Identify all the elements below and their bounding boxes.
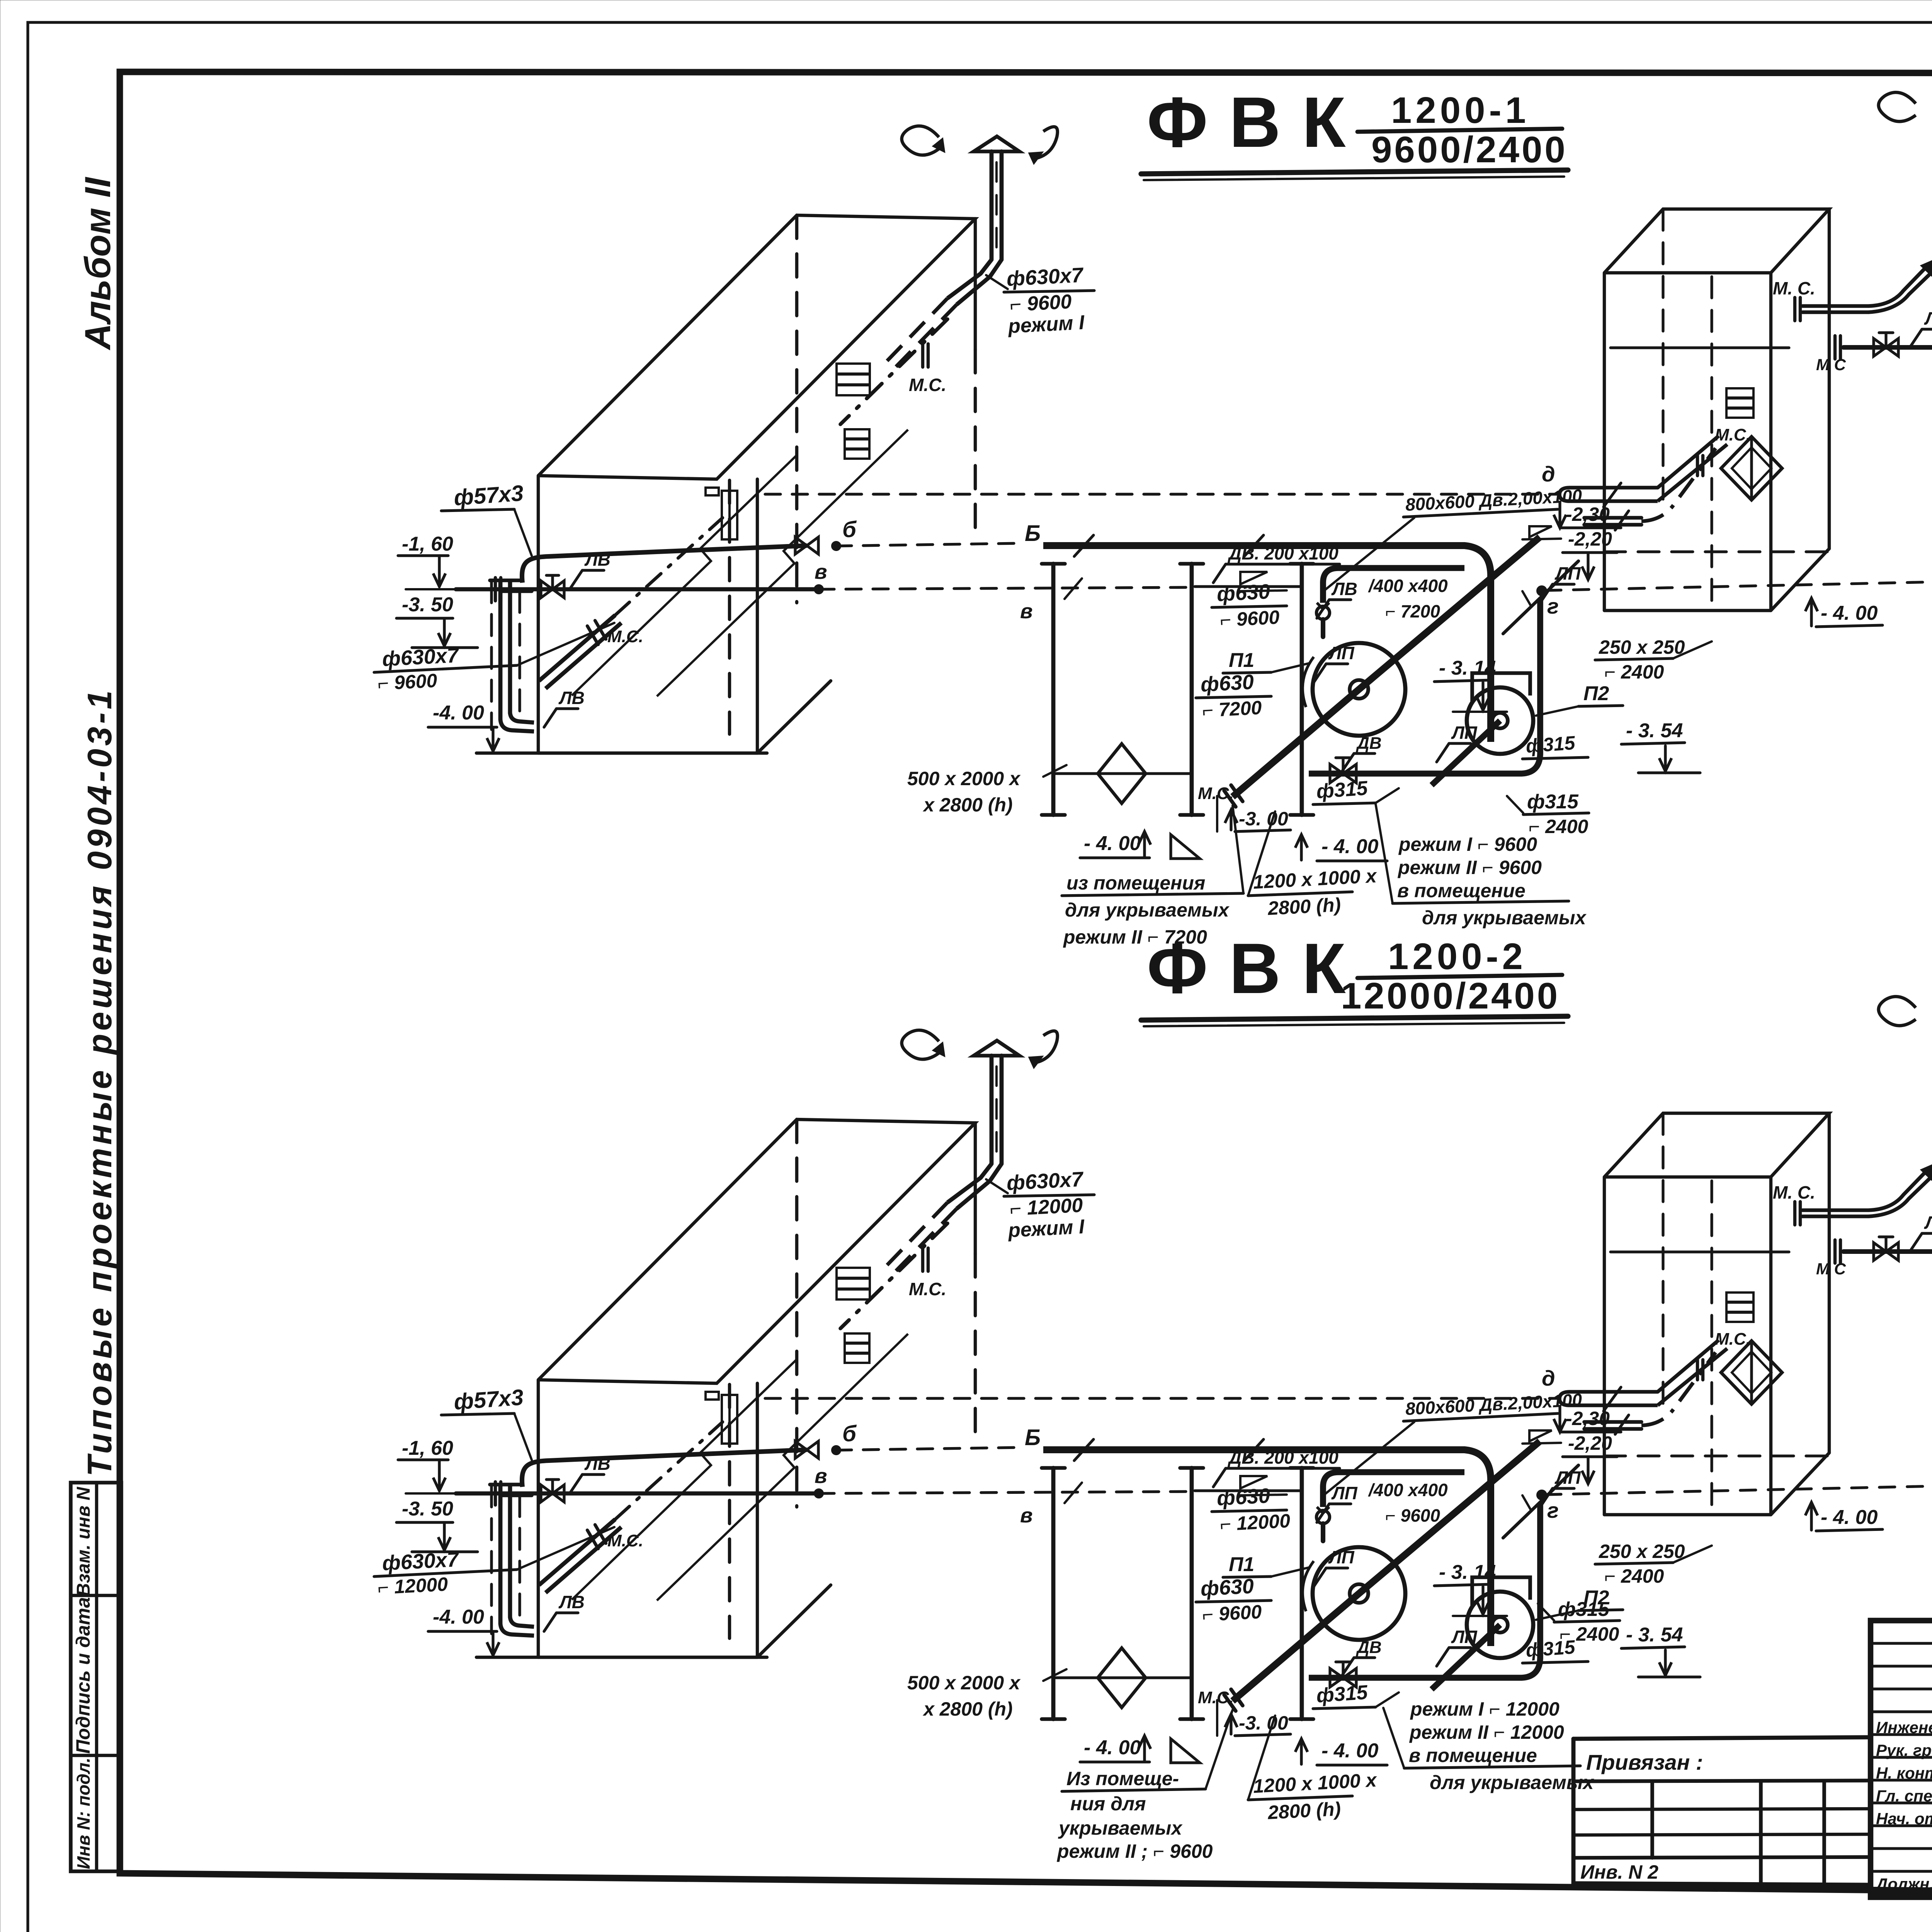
svg-text:режим I: режим I — [1007, 1216, 1086, 1242]
svg-text:ф57х3: ф57х3 — [453, 1385, 524, 1415]
label f315 valve (bottom) — [1313, 1681, 1399, 1709]
svg-text:- 3. 14: - 3. 14 — [1439, 1561, 1496, 1583]
label P2 (top) — [1536, 682, 1623, 716]
svg-text:ЛП: ЛП — [1451, 1627, 1478, 1647]
svg-text:М С: М С — [1816, 1260, 1846, 1278]
svg-text:⌐ 2400: ⌐ 2400 — [1560, 1623, 1619, 1645]
level -1.60 (bottom) — [398, 1437, 458, 1493]
ground line (top) — [476, 752, 767, 755]
svg-text:в: в — [815, 560, 827, 583]
fan P1 (bottom) — [1198, 1441, 1540, 1711]
svg-text:ф315: ф315 — [1527, 791, 1579, 813]
valve f315 (top) — [1330, 758, 1356, 783]
pipe b section line (bottom) — [522, 1421, 1041, 1487]
svg-text:М.С.: М.С. — [607, 1531, 643, 1550]
vent stack rezhim II (top) — [1879, 92, 1932, 266]
label f630 7200 (bottom) — [1196, 1575, 1271, 1626]
svg-text:250 х 250: 250 х 250 — [1599, 636, 1685, 658]
label f630x7 stack (bottom) — [1004, 1168, 1094, 1242]
level -4.00 mid-left (bottom) — [1080, 1736, 1200, 1763]
svg-text:х 2800 (h): х 2800 (h) — [922, 1698, 1013, 1720]
svg-text:-1, 60: -1, 60 — [402, 1437, 453, 1459]
left sidebar table — [71, 1483, 121, 1871]
left riser f630 (bottom) — [490, 1422, 723, 1636]
pipe f315 2400 main (bottom) — [1816, 1237, 1932, 1278]
svg-text:для укрываемых: для укрываемых — [1430, 1772, 1595, 1793]
svg-text:в: в — [1020, 600, 1033, 623]
text iz pomescheniya (bottom) — [1056, 1710, 1233, 1862]
svg-text:ЛВ: ЛВ — [1924, 308, 1932, 328]
svg-text:М.С.: М.С. — [1198, 1688, 1234, 1707]
label f315 valve (top) — [1313, 777, 1399, 804]
label 500x2000 (top) — [907, 765, 1066, 816]
fan P2 (top) — [1432, 673, 1533, 785]
svg-text:Инв. N 2: Инв. N 2 — [1580, 1861, 1658, 1883]
svg-text:Б: Б — [1025, 521, 1041, 546]
flag LV mid (top) — [1317, 576, 1448, 621]
damper circle P1 inlet (top) — [1316, 603, 1330, 637]
svg-text:г: г — [1547, 594, 1559, 618]
svg-text:⌐ 9600: ⌐ 9600 — [377, 670, 438, 694]
stack leader line (bottom) — [986, 1179, 1008, 1193]
svg-text:П1: П1 — [1229, 649, 1254, 672]
label 800x600 (top) — [1323, 485, 1583, 591]
svg-text:Гл. спец.: Гл. спец. — [1876, 1787, 1932, 1805]
svg-text:ф315: ф315 — [1525, 732, 1576, 757]
svg-text:Привязан :: Привязан : — [1586, 1750, 1703, 1774]
title block grid — [1871, 1621, 1932, 1897]
svg-text:12000/2400: 12000/2400 — [1341, 975, 1560, 1017]
svg-text:ЛВ: ЛВ — [558, 688, 585, 708]
level -1.60 (top) — [398, 533, 458, 589]
duct d thick (top) — [1560, 436, 1727, 507]
MC pipe right box (bottom) — [1773, 1164, 1932, 1225]
svg-text:250 х 250: 250 х 250 — [1599, 1541, 1685, 1562]
label 500x2000 (bottom) — [907, 1669, 1066, 1720]
svg-text:ния для: ния для — [1070, 1793, 1146, 1815]
level -3.14 (bottom) — [1434, 1561, 1507, 1616]
duct d thick (bottom) — [1560, 1340, 1727, 1411]
label 1200x1000 (top) — [1248, 811, 1378, 919]
svg-text:-4. 00: -4. 00 — [433, 702, 484, 724]
svg-text:500 х 2000 х: 500 х 2000 х — [907, 1672, 1021, 1694]
svg-text:ДВ. 200 х100: ДВ. 200 х100 — [1227, 543, 1338, 563]
svg-text:⌐ 2400: ⌐ 2400 — [1529, 816, 1588, 837]
label f630x7 riser (bottom) — [374, 1527, 614, 1599]
level -3.50 (top) — [396, 594, 478, 648]
label f630 7200 (top) — [1196, 670, 1271, 721]
fan P2 (bottom) — [1432, 1577, 1533, 1689]
stack leader line (top) — [986, 275, 1008, 289]
svg-text:9600/2400: 9600/2400 — [1371, 129, 1568, 170]
svg-text:П1: П1 — [1229, 1553, 1254, 1576]
svg-text:ф315: ф315 — [1316, 1681, 1369, 1707]
level -2.20 (top) — [1522, 526, 1617, 580]
svg-text:- 4. 00: - 4. 00 — [1321, 835, 1378, 858]
svg-text:д: д — [1542, 462, 1555, 486]
break line (top) — [572, 430, 908, 696]
level -2.20 (bottom) — [1522, 1430, 1617, 1484]
svg-text:режим II ⌐ 7200: режим II ⌐ 7200 — [1063, 926, 1207, 948]
svg-text:1200-1: 1200-1 — [1391, 90, 1530, 131]
svg-text:- 3. 54: - 3. 54 — [1626, 1624, 1683, 1646]
pipe v section line (top) — [456, 560, 1195, 623]
filter diamond right box (bottom) — [1584, 1293, 1782, 1434]
flag LV valve (bottom) — [570, 1454, 611, 1493]
svg-text:для укрываемых: для укрываемых — [1422, 907, 1587, 929]
label f315 2400 right (top) — [1507, 791, 1589, 837]
vent stack rezhim II (bottom) — [1879, 997, 1932, 1170]
flag DV small (top) — [1342, 734, 1382, 772]
left riser f630 (top) — [490, 518, 723, 731]
svg-text:Должн.: Должн. — [1875, 1875, 1932, 1893]
label f315 small (top) — [1522, 732, 1588, 759]
svg-text:для укрываемых: для укрываемых — [1065, 899, 1230, 921]
svg-text:2800 (h): 2800 (h) — [1267, 894, 1342, 919]
flag LV f315 (bottom) — [1910, 1213, 1932, 1252]
svg-text:⌐ 12000: ⌐ 12000 — [377, 1573, 449, 1599]
svg-text:ЛВ: ЛВ — [584, 549, 611, 570]
pipe f315 2400 main (top) — [1816, 333, 1932, 374]
flag LP 1 (bottom) — [1314, 1547, 1355, 1587]
level -4.00 mid (bottom) — [1295, 1739, 1387, 1765]
svg-text:- 3. 54: - 3. 54 — [1626, 719, 1683, 742]
svg-text:ФВК: ФВК — [1147, 83, 1367, 162]
svg-text:режим II ⌐ 9600: режим II ⌐ 9600 — [1397, 857, 1542, 878]
label f57x3 (top) — [441, 481, 532, 556]
level -3.00 (bottom) — [1217, 1700, 1291, 1736]
svg-text:М. С.: М. С. — [1773, 1182, 1815, 1202]
filter columns and diamond (top) — [1042, 564, 1313, 815]
pipe d dashed (top) — [765, 462, 1560, 494]
svg-text:ф630х7: ф630х7 — [1006, 1168, 1085, 1195]
pipe 250x250 diag (top) — [1503, 561, 1578, 634]
svg-text:Б: Б — [1025, 1425, 1041, 1450]
privyazan annex table — [1573, 1737, 1871, 1739]
filter diamond right box (top) — [1584, 388, 1782, 530]
level -4.00 right box (bottom) — [1805, 1502, 1883, 1531]
flag LV riser (top) — [544, 688, 585, 727]
svg-text:- 3. 14: - 3. 14 — [1439, 657, 1496, 679]
svg-text:Типовые проектные решения 0: Типовые проектные решения 0904-03-1 — [80, 687, 119, 1476]
g dashed line (bottom) — [1546, 1484, 1932, 1495]
svg-text:Альбом II: Альбом II — [77, 177, 118, 350]
svg-text:в помещение: в помещение — [1397, 880, 1526, 901]
svg-text:в: в — [815, 1464, 827, 1488]
break line (bottom) — [572, 1334, 908, 1600]
svg-text:ДВ: ДВ — [1355, 1638, 1382, 1657]
label f630 9600 (top) — [1212, 580, 1287, 631]
flag LP 2 (top) — [1437, 723, 1478, 762]
label f630 9600 (bottom) — [1212, 1484, 1291, 1535]
level -4.00 left (top) — [428, 702, 499, 751]
svg-text:ДВ. 200 х100: ДВ. 200 х100 — [1227, 1447, 1338, 1468]
svg-text:г: г — [1547, 1498, 1559, 1522]
svg-text:режим I ⌐ 9600: режим I ⌐ 9600 — [1398, 833, 1537, 855]
svg-text:Рук. гр.: Рук. гр. — [1876, 1741, 1932, 1759]
duct lower wall (top) — [1323, 568, 1464, 603]
svg-text:⌐ 7200: ⌐ 7200 — [1385, 601, 1440, 621]
svg-text:в: в — [1020, 1504, 1033, 1527]
valve f315 (bottom) — [1330, 1662, 1356, 1687]
pipe v section line (bottom) — [456, 1464, 1195, 1527]
svg-text:⌐ 2400: ⌐ 2400 — [1604, 661, 1664, 683]
svg-text:⌐ 12000: ⌐ 12000 — [1219, 1510, 1291, 1535]
svg-text:в помещение: в помещение — [1409, 1745, 1537, 1766]
svg-text:М. С.: М. С. — [1773, 278, 1815, 298]
svg-text:режим I: режим I — [1007, 311, 1086, 338]
flag LP 1 (top) — [1314, 643, 1355, 682]
building box left (top) — [538, 215, 975, 753]
duct lower wall (bottom) — [1323, 1472, 1464, 1507]
svg-text:П2: П2 — [1583, 682, 1609, 705]
g riser thick (top) — [1537, 587, 1559, 618]
level -3.14 (top) — [1434, 657, 1507, 712]
svg-text:б: б — [842, 1421, 857, 1446]
svg-text:-3. 00: -3. 00 — [1239, 808, 1288, 830]
flag LV valve (top) — [570, 549, 611, 589]
svg-text:2800 (h): 2800 (h) — [1267, 1798, 1342, 1823]
svg-text:/400 х400: /400 х400 — [1368, 1480, 1448, 1500]
dampers and MC pipe in box (bottom) — [837, 1223, 947, 1363]
duct b thick (top) — [1043, 535, 1491, 742]
label 1200x1000 (bottom) — [1248, 1716, 1378, 1823]
svg-text:ф57х3: ф57х3 — [453, 481, 524, 510]
pipe 250x250 diag (bottom) — [1503, 1465, 1578, 1538]
svg-text:Нач. отд: Нач. отд — [1876, 1810, 1932, 1828]
svg-text:режим II ; ⌐ 9600: режим II ; ⌐ 9600 — [1056, 1840, 1213, 1862]
svg-text:ф630: ф630 — [1200, 670, 1254, 696]
svg-text:М.С.: М.С. — [909, 375, 946, 395]
svg-text:-1, 60: -1, 60 — [402, 533, 453, 555]
pipe f315 bottom (bottom) — [1309, 1504, 1540, 1678]
svg-text:ф630х7: ф630х7 — [1006, 264, 1085, 291]
building box right (bottom) — [1604, 1113, 1829, 1515]
label 250x250 (bottom) — [1595, 1541, 1712, 1587]
svg-text:ф630: ф630 — [1200, 1575, 1254, 1600]
svg-text:- 4. 00: - 4. 00 — [1084, 832, 1141, 855]
level -2.30 (bottom) — [1554, 1406, 1621, 1432]
building box left (bottom) — [538, 1119, 975, 1657]
text rezhim right (bottom) — [1383, 1698, 1595, 1793]
level -2.30 (top) — [1554, 502, 1621, 528]
label f630x7 riser (top) — [374, 623, 614, 694]
svg-text:ЛП: ЛП — [1328, 1547, 1355, 1567]
level -3.54 (bottom) — [1621, 1624, 1700, 1677]
level -4.00 mid (top) — [1295, 835, 1387, 861]
level -3.50 (bottom) — [396, 1498, 478, 1552]
label f57x3 (bottom) — [441, 1385, 532, 1460]
g riser thick (bottom) — [1537, 1491, 1559, 1522]
label 800x600 (bottom) — [1323, 1389, 1583, 1495]
svg-text:М.С.: М.С. — [1715, 1330, 1751, 1349]
duct b thick (bottom) — [1043, 1439, 1491, 1646]
svg-text:-4. 00: -4. 00 — [433, 1606, 484, 1628]
level -3.54 (top) — [1621, 719, 1700, 773]
svg-text:Подпись и дата: Подпись и дата — [72, 1597, 94, 1753]
pipe f315 bottom (top) — [1309, 600, 1540, 774]
filter columns and diamond (bottom) — [1042, 1468, 1313, 1719]
svg-text:Из помеще-: Из помеще- — [1066, 1768, 1179, 1789]
fan P1 (top) — [1198, 537, 1540, 807]
label P2 (bottom) — [1536, 1587, 1623, 1620]
svg-text:- 4. 00: - 4. 00 — [1321, 1740, 1378, 1762]
svg-text:режим II ⌐ 12000: режим II ⌐ 12000 — [1409, 1721, 1564, 1743]
dampers and MC pipe in box (top) — [837, 319, 947, 459]
text rezhim right (top) — [1376, 804, 1587, 929]
svg-text:⌐ 2400: ⌐ 2400 — [1604, 1565, 1664, 1587]
svg-text:х 2800 (h): х 2800 (h) — [922, 794, 1013, 816]
svg-text:укрываемых: укрываемых — [1058, 1817, 1183, 1839]
label f315 small (bottom) — [1522, 1636, 1588, 1663]
svg-text:-3. 00: -3. 00 — [1239, 1712, 1288, 1734]
svg-text:ЛП: ЛП — [1451, 723, 1478, 743]
svg-text:⌐ 9600: ⌐ 9600 — [1385, 1505, 1440, 1526]
svg-text:М.С.: М.С. — [607, 627, 643, 646]
label f315 2400 right (bottom) — [1538, 1598, 1620, 1645]
svg-text:⌐ 9600: ⌐ 9600 — [1219, 606, 1280, 631]
text iz pomescheniya (top) — [1062, 806, 1243, 948]
svg-text:М.С.: М.С. — [909, 1279, 946, 1299]
flag LV mid (bottom) — [1317, 1480, 1448, 1526]
svg-text:б: б — [842, 517, 857, 542]
building box right (top) — [1604, 209, 1829, 611]
svg-text:д: д — [1542, 1366, 1555, 1390]
flag LV riser (bottom) — [544, 1592, 585, 1631]
svg-text:М.С.: М.С. — [1198, 784, 1234, 803]
level -4.00 mid-left (top) — [1080, 832, 1200, 859]
svg-text:М С: М С — [1816, 355, 1846, 374]
svg-text:ЛВ: ЛВ — [584, 1454, 611, 1474]
svg-text:/400 х400: /400 х400 — [1368, 576, 1448, 596]
svg-text:из помещения: из помещения — [1066, 872, 1205, 894]
level -4.00 right box (top) — [1805, 598, 1883, 627]
g dashed line (top) — [1546, 580, 1932, 590]
svg-text:1200-2: 1200-2 — [1388, 936, 1527, 977]
svg-text:Взам. инв N: Взам. инв N — [73, 1486, 94, 1597]
svg-text:500 х 2000 х: 500 х 2000 х — [907, 768, 1021, 789]
svg-text:- 4. 00: - 4. 00 — [1821, 602, 1878, 624]
label f630x7 stack (top) — [1004, 264, 1094, 338]
flag LV f315 (top) — [1910, 308, 1932, 348]
label 250x250 (top) — [1595, 636, 1712, 683]
svg-text:⌐ 7200: ⌐ 7200 — [1202, 697, 1262, 721]
svg-text:ЛВ: ЛВ — [558, 1592, 585, 1612]
svg-text:ЛВ: ЛВ — [1924, 1213, 1932, 1233]
svg-text:- 4. 00: - 4. 00 — [1084, 1736, 1141, 1759]
level -4.00 left (bottom) — [428, 1606, 499, 1655]
wall device LV (bottom) — [706, 1392, 737, 1444]
svg-text:- 4. 00: - 4. 00 — [1821, 1506, 1878, 1529]
level -3.00 (top) — [1217, 796, 1291, 832]
ground line (bottom) — [476, 1656, 767, 1659]
vent stack rezhim I (bottom) — [885, 1030, 1058, 1274]
flag LP 2 (bottom) — [1437, 1627, 1478, 1666]
pipe b section line (top) — [522, 517, 1041, 583]
wall device LV (top) — [706, 488, 737, 539]
svg-text:-3. 50: -3. 50 — [402, 1498, 453, 1520]
svg-text:ф315: ф315 — [1558, 1598, 1610, 1621]
svg-text:ДВ: ДВ — [1355, 734, 1382, 753]
svg-text:⌐ 9600: ⌐ 9600 — [1202, 1601, 1262, 1626]
flag DV small (bottom) — [1342, 1638, 1382, 1676]
MC pipe right box (top) — [1773, 260, 1932, 321]
svg-text:Н. контр.: Н. контр. — [1876, 1764, 1932, 1782]
svg-text:режим I ⌐ 12000: режим I ⌐ 12000 — [1410, 1698, 1560, 1720]
svg-text:ЛП: ЛП — [1328, 643, 1355, 663]
damper circle P1 inlet (bottom) — [1316, 1507, 1330, 1541]
flag LP 3 (top) — [1540, 563, 1581, 603]
svg-text:Инженер: Инженер — [1876, 1718, 1932, 1736]
svg-text:Инв N: подл.: Инв N: подл. — [73, 1758, 94, 1869]
label DV200x100 (top) — [1213, 543, 1340, 591]
svg-text:-3. 50: -3. 50 — [402, 594, 453, 616]
label P1 (bottom) — [1223, 1553, 1310, 1577]
svg-text:ф315: ф315 — [1316, 777, 1369, 803]
vent stack rezhim I (top) — [885, 126, 1058, 370]
svg-text:М.С.: М.С. — [1715, 425, 1751, 444]
label DV200x100 (bottom) — [1213, 1447, 1340, 1495]
flag LP 3 (bottom) — [1540, 1468, 1581, 1507]
label P1 (top) — [1223, 649, 1310, 673]
pipe d dashed (bottom) — [765, 1366, 1560, 1398]
